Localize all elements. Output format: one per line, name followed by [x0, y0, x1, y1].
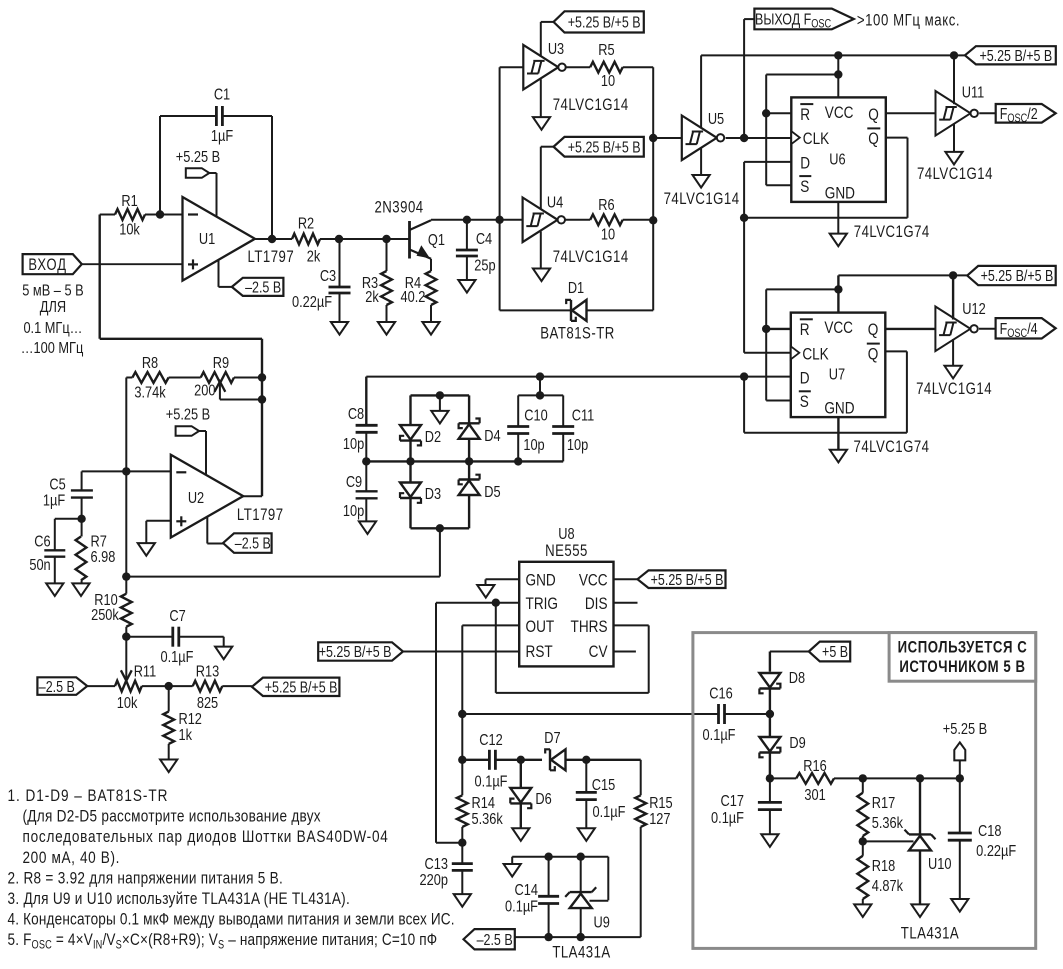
header box: [889, 633, 1036, 682]
diode D1: [540, 280, 653, 343]
ground U4: [533, 232, 550, 282]
capacitor C13: [420, 843, 473, 894]
svg-text:2k: 2k: [307, 248, 321, 266]
ground U10: [911, 904, 928, 917]
svg-text:Q: Q: [868, 130, 879, 149]
svg-text:R8: R8: [142, 355, 158, 373]
svg-text:200: 200: [194, 382, 215, 400]
wire C12 row: [462, 714, 640, 760]
ground R7: [72, 583, 89, 596]
svg-text:VCC: VCC: [824, 319, 853, 338]
resistor R17: [857, 778, 903, 841]
svg-text:+5.25 В/+5 В: +5.25 В/+5 В: [319, 643, 392, 661]
wire U1 output: [255, 238, 292, 240]
svg-text:C1: C1: [214, 86, 230, 104]
resistor R14: [457, 760, 504, 843]
diode D6: [510, 760, 551, 828]
ground U9 rail: [504, 864, 521, 877]
resistor R12: [163, 686, 202, 759]
wire U2 output: [243, 495, 262, 497]
svg-text:C11: C11: [572, 407, 595, 425]
svg-text:S: S: [800, 393, 809, 412]
svg-text:+5.25 В/+5 В: +5.25 В/+5 В: [265, 678, 338, 696]
svg-text:–2.5 В: –2.5 В: [245, 278, 281, 296]
wire Q1 collector to U3/U4 column: [431, 219, 500, 221]
node U6 D tie: [740, 214, 748, 222]
svg-text:(Для D2-D5 рассмотрите использ: (Для D2-D5 рассмотрите использование дву…: [22, 807, 320, 826]
svg-text:C4: C4: [476, 231, 492, 249]
svg-text:0.1µF: 0.1µF: [505, 898, 538, 916]
op-amp U1: [183, 197, 295, 281]
junction U6 ties: [762, 70, 843, 117]
resistor R15: [635, 760, 672, 937]
nodes U9 rail: [544, 853, 585, 861]
svg-text:C9: C9: [346, 474, 362, 492]
svg-text:10p: 10p: [567, 437, 588, 455]
wire bridge top rail: [366, 377, 469, 426]
wire OUT node to C16: [462, 713, 770, 715]
node U12 supply: [949, 271, 957, 279]
ground C6: [46, 583, 63, 596]
svg-text:2N3904: 2N3904: [374, 198, 423, 217]
svg-text:74LVC1G74: 74LVC1G74: [854, 223, 930, 242]
diode D7: [544, 730, 565, 771]
wire U8 CV stub: [614, 651, 636, 653]
svg-text:4. Конденсаторы 0.1 мкФ между: 4. Конденсаторы 0.1 мкФ между выводами п…: [8, 910, 455, 929]
diode D3: [400, 461, 441, 528]
svg-text:>100 МГц макс.: >100 МГц макс.: [857, 11, 960, 30]
wire U8 GND: [486, 579, 520, 585]
node R11/R12/R13: [165, 682, 173, 690]
svg-text:R1: R1: [121, 193, 137, 211]
node C4: [463, 216, 471, 224]
svg-text:+5.25 В/+5 В: +5.25 В/+5 В: [979, 47, 1052, 65]
shunt reference U10 TLA431A: [901, 778, 959, 943]
wire integrator node to bridge: [126, 528, 440, 576]
ground R18: [854, 904, 871, 917]
svg-text:10k: 10k: [119, 221, 140, 239]
junction R9: [258, 373, 266, 403]
svg-text:74LVC1G14: 74LVC1G14: [553, 96, 629, 115]
power flag +5.25V/+5V (U7 row): [967, 266, 1055, 285]
svg-text:GND: GND: [825, 184, 855, 203]
svg-text:74LVC1G14: 74LVC1G14: [553, 248, 629, 267]
resistor R3: [362, 239, 392, 322]
svg-text:40.2: 40.2: [401, 289, 426, 307]
svg-text:U11: U11: [962, 84, 985, 102]
svg-text:1. D1-D9 – BAT81S-TR: 1. D1-D9 – BAT81S-TR: [8, 787, 169, 806]
svg-text:25p: 25p: [474, 257, 495, 275]
svg-text:ИСПОЛЬЗУЕТСЯ С: ИСПОЛЬЗУЕТСЯ С: [898, 638, 1028, 657]
wire U6 D/Qbar loop to U7 CLK: [744, 138, 907, 353]
ground bridge top: [431, 395, 448, 423]
ground C4: [458, 280, 475, 293]
svg-text:Q: Q: [868, 345, 879, 364]
capacitor C16: [703, 685, 736, 744]
svg-text:+5.25 В: +5.25 В: [166, 406, 210, 424]
svg-text:D5: D5: [484, 484, 500, 502]
flip-flop U6: [791, 97, 886, 201]
nodes -2.5 row: [544, 933, 585, 941]
svg-text:10: 10: [601, 226, 615, 244]
svg-text:LT1797: LT1797: [248, 248, 295, 267]
resistor R1: [100, 193, 183, 239]
svg-text:R5: R5: [598, 42, 614, 60]
power flag +5.25 V (U2): [166, 406, 210, 475]
svg-text:VCC: VCC: [825, 104, 854, 123]
svg-text:74LVC1G74: 74LVC1G74: [854, 438, 930, 457]
capacitor C5: [43, 471, 126, 518]
capacitor C14: [505, 882, 559, 937]
wire U5 input: [653, 137, 682, 139]
svg-text:D: D: [800, 369, 810, 388]
ground U8: [477, 585, 494, 598]
svg-text:D3: D3: [425, 486, 441, 504]
wire R1 node to U2 output: [100, 215, 262, 497]
IC U8 NE555 box: [519, 562, 613, 667]
svg-text:3.74k: 3.74k: [134, 384, 166, 402]
svg-text:10p: 10p: [343, 503, 364, 521]
wire U7 D input: [700, 376, 791, 378]
wire bridge mid row: [366, 460, 563, 462]
svg-text:74LVC1G14: 74LVC1G14: [916, 380, 992, 399]
svg-text:3. Для U9 и U10 используйте TL: 3. Для U9 и U10 используйте TLA431A (НЕ …: [8, 890, 351, 909]
power flag +5.25 V (U1): [176, 149, 220, 218]
wire U6 GND: [837, 202, 839, 234]
power flag +5.25V/+5V (R13): [252, 678, 340, 696]
ground U5: [693, 148, 710, 188]
wire U8 THRS loop: [496, 603, 649, 693]
wire bridge bottom rail: [411, 527, 470, 529]
capacitor C8: [343, 406, 378, 462]
node C16/D8/D9: [766, 710, 774, 718]
ground U6: [830, 234, 847, 247]
diode D8: [759, 652, 805, 715]
svg-text:ВХОД: ВХОД: [28, 257, 67, 275]
svg-text:1µF: 1µF: [211, 128, 233, 146]
capacitor C9: [343, 461, 378, 521]
diode D5: [459, 461, 501, 528]
capacitor C4: [456, 220, 496, 280]
svg-text:R18: R18: [872, 858, 895, 876]
ground C9: [359, 521, 376, 534]
wire R16 rail: [770, 777, 960, 779]
resistor R10: [91, 577, 132, 637]
inverter U11: [936, 84, 985, 135]
capacitor C10: [507, 395, 548, 461]
wire U7 D/Qbar loop: [744, 351, 907, 432]
svg-text:127: 127: [649, 811, 670, 829]
svg-text:C3: C3: [320, 268, 336, 286]
ground U12: [945, 339, 962, 378]
capacitor C7: [126, 608, 223, 667]
svg-text:Q1: Q1: [428, 232, 445, 250]
svg-text:–2.5 В: –2.5 В: [477, 931, 513, 949]
resistor R5: [566, 42, 653, 91]
svg-text:C12: C12: [479, 732, 502, 750]
svg-text:D8: D8: [789, 670, 805, 688]
power flag +5.25V/+5V (U8 VCC): [638, 570, 726, 588]
svg-text:1µF: 1µF: [43, 492, 65, 510]
inverter U4: [523, 194, 565, 242]
svg-text:0.1µF: 0.1µF: [475, 773, 508, 791]
output flag VYHOD Fosc: [744, 9, 854, 138]
junction R2/C3 and R3: [335, 235, 391, 243]
input flag VHOD: [23, 254, 183, 274]
resistor R8: [126, 355, 200, 402]
svg-text:74LVC1G14: 74LVC1G14: [917, 165, 993, 184]
power flag -2.5 V (U1): [219, 260, 284, 296]
wire U8 TRIG: [436, 603, 519, 843]
ground U11: [945, 124, 962, 165]
svg-text:U1: U1: [199, 231, 215, 249]
ground R3: [378, 322, 395, 335]
svg-text:U4: U4: [547, 194, 563, 212]
wire R2 to Q1 base: [339, 238, 410, 240]
svg-text:250k: 250k: [91, 607, 119, 625]
svg-text:R17: R17: [872, 795, 895, 813]
resistor R16: [796, 758, 834, 805]
svg-text:U6: U6: [829, 151, 845, 169]
node U5 output: [740, 134, 748, 142]
svg-text:VCC: VCC: [579, 571, 608, 590]
svg-text:U12: U12: [962, 301, 985, 319]
svg-text:S: S: [800, 177, 809, 196]
node U4 input: [495, 216, 503, 224]
notes text: [8, 787, 455, 952]
node R17/R18: [859, 837, 867, 845]
svg-text:0.22µF: 0.22µF: [292, 294, 332, 312]
svg-text:D: D: [800, 154, 810, 173]
output flag Fosc/2: [979, 104, 1055, 125]
potentiometer R11: [87, 637, 169, 713]
ground C13: [454, 894, 471, 907]
ground C15: [578, 828, 595, 841]
wire U7 Q to U12: [885, 328, 935, 330]
output flag Fosc/4: [979, 318, 1056, 340]
node R1/C1: [156, 210, 164, 218]
svg-text:GND: GND: [526, 571, 556, 590]
potentiometer R9: [194, 355, 262, 400]
svg-text:D6: D6: [535, 791, 551, 809]
diode D9: [759, 714, 805, 778]
wire U5 output to U6 CLK: [726, 137, 792, 139]
wire U10 ref: [863, 840, 914, 842]
power flag -2.5 V (R11): [37, 677, 87, 695]
svg-text:4.87k: 4.87k: [872, 878, 904, 896]
power flag +5.25V/+5V (U4): [541, 137, 644, 210]
svg-text:TLA431A: TLA431A: [901, 924, 959, 943]
svg-text:+5 В: +5 В: [822, 643, 848, 661]
svg-text:U7: U7: [829, 366, 845, 384]
svg-text:OUT: OUT: [526, 617, 555, 636]
svg-text:6.98: 6.98: [90, 549, 115, 567]
node U1 out: [268, 235, 276, 243]
capacitor C11: [552, 395, 594, 461]
shunt reference U9 TLA431A: [552, 887, 610, 962]
svg-text:0.1µF: 0.1µF: [711, 810, 744, 828]
node bridge top: [436, 372, 545, 399]
svg-text:BAT81S-TR: BAT81S-TR: [540, 324, 614, 343]
svg-text:THRS: THRS: [571, 617, 608, 636]
svg-text:CLK: CLK: [803, 130, 830, 149]
junction U7 ties: [762, 285, 843, 333]
svg-text:74LVC1G14: 74LVC1G14: [664, 190, 740, 209]
node TRIG/THRS: [492, 599, 500, 607]
ground C7: [215, 647, 232, 660]
svg-text:U5: U5: [708, 111, 724, 129]
wire U11 supply: [953, 55, 955, 104]
diode D2: [400, 409, 441, 461]
capacitor C12: [475, 732, 508, 791]
svg-text:+5.25 В: +5.25 В: [943, 721, 987, 739]
wire +5.25 rail (U7 row): [838, 274, 967, 276]
wire U12 supply: [952, 275, 954, 319]
svg-text:LT1797: LT1797: [237, 506, 284, 525]
capacitor C3: [292, 239, 351, 322]
resistor R7: [76, 519, 116, 584]
svg-text:C6: C6: [34, 533, 50, 551]
svg-text:+5.25 В: +5.25 В: [176, 149, 220, 167]
ground C18: [951, 899, 968, 912]
svg-text:R13: R13: [196, 663, 219, 681]
svg-text:0.1 МГц…: 0.1 МГц…: [23, 320, 82, 338]
svg-text:R2: R2: [298, 215, 314, 233]
wire U6 Q to U11: [886, 112, 936, 114]
wire vertical U3/U4/D1 left column: [500, 67, 571, 310]
svg-text:50n: 50n: [29, 557, 50, 575]
svg-text:0.1µF: 0.1µF: [160, 649, 193, 667]
svg-text:C8: C8: [348, 406, 364, 424]
wire +5.25 rail (U6 row): [701, 54, 965, 56]
diode D4: [459, 404, 501, 461]
svg-text:D9: D9: [789, 735, 805, 753]
svg-text:+5.25 В/+5 В: +5.25 В/+5 В: [568, 138, 641, 156]
svg-text:220p: 220p: [420, 872, 448, 890]
inverter U5: [682, 111, 724, 160]
nodes R16 rail: [766, 774, 964, 782]
wire U8 RST: [403, 651, 519, 653]
nodes bridge mid: [362, 457, 522, 465]
junction right column: [649, 134, 657, 225]
svg-text:2. R8 = 3.92 для напряжении пи: 2. R8 = 3.92 для напряжении питания 5 В.: [8, 869, 284, 888]
svg-text:D1: D1: [568, 280, 584, 298]
svg-text:NE555: NE555: [545, 542, 588, 561]
svg-text:R: R: [800, 105, 810, 124]
wire feedback C1 loop: [160, 116, 272, 239]
svg-text:U10: U10: [928, 856, 951, 874]
capacitor C15: [576, 760, 626, 828]
svg-text:10k: 10k: [117, 695, 138, 713]
svg-text:последовательных пар диодов Шо: последовательных пар диодов Шоттки BAS40…: [22, 828, 388, 847]
node OUT/C16: [458, 710, 466, 718]
ground U3: [533, 79, 550, 130]
svg-text:U3: U3: [548, 41, 564, 59]
svg-text:301: 301: [804, 787, 825, 805]
svg-text:C15: C15: [592, 777, 615, 795]
svg-text:+5.25 В/+5 В: +5.25 В/+5 В: [651, 571, 724, 589]
resistor R2: [292, 215, 339, 266]
wire U7 GND: [837, 417, 839, 450]
svg-text:…100 МГц: …100 МГц: [21, 340, 84, 358]
svg-text:C16: C16: [709, 685, 732, 703]
capacitor C18: [948, 778, 1017, 899]
capacitor C6: [29, 519, 81, 584]
power flag -2.5 V (U2): [207, 517, 271, 553]
ground U2 +: [138, 543, 155, 556]
ground R12: [160, 760, 177, 773]
node bridge bottom: [436, 524, 444, 532]
svg-text:GND: GND: [824, 399, 854, 418]
svg-text:CLK: CLK: [802, 345, 829, 364]
svg-text:C18: C18: [978, 823, 1001, 841]
svg-text:U2: U2: [188, 490, 204, 508]
svg-text:10: 10: [601, 73, 615, 91]
svg-text:TLA431A: TLA431A: [552, 943, 610, 962]
resistor R4: [401, 259, 437, 322]
svg-text:+5.25 В/+5 В: +5.25 В/+5 В: [981, 267, 1054, 285]
svg-text:TRIG: TRIG: [526, 595, 558, 614]
svg-text:C7: C7: [169, 608, 185, 626]
power flag +5 V: [770, 642, 850, 662]
svg-text:Q: Q: [868, 321, 879, 340]
svg-text:RST: RST: [526, 642, 554, 661]
svg-text:R9: R9: [213, 355, 229, 373]
capacitor C1: [211, 86, 233, 145]
node R10/C7: [122, 633, 130, 641]
op-amp U2: [171, 455, 284, 538]
svg-text:+5.25 В/+5 В: +5.25 В/+5 В: [568, 13, 641, 31]
wire U8 DIS stub: [614, 602, 638, 604]
node U7 D tie: [740, 372, 748, 380]
svg-text:5.36k: 5.36k: [472, 811, 504, 829]
flip-flop U7: [791, 313, 886, 418]
wire U6 R/S tie: [766, 75, 838, 186]
resistor R13: [169, 663, 252, 712]
resistor R18: [857, 841, 903, 904]
nodes C12 row: [458, 756, 590, 764]
node R14/C13: [458, 839, 466, 847]
wire U2 inverting column: [126, 378, 171, 577]
ground C3: [331, 322, 348, 335]
capacitor C17: [711, 778, 782, 834]
inverter U3: [523, 41, 565, 90]
power flag +5.25V/+5V (U3): [541, 11, 644, 57]
wire right column R5/R6/D1: [652, 67, 654, 310]
power flag -2.5 V (U9): [464, 929, 515, 949]
wire U9 top rail: [512, 857, 608, 901]
svg-text:C10: C10: [524, 407, 547, 425]
ground C17: [761, 834, 778, 847]
svg-text:5.36k: 5.36k: [872, 815, 904, 833]
box uses-with-5V-source: [693, 633, 1036, 949]
svg-text:0.22µF: 0.22µF: [976, 843, 1016, 861]
svg-text:0.1µF: 0.1µF: [703, 727, 736, 745]
svg-text:ДЛЯ: ДЛЯ: [40, 299, 66, 317]
wire -2.5V row U9: [515, 936, 641, 938]
svg-text:2k: 2k: [365, 289, 379, 307]
power arrow +5.25 V: [943, 721, 987, 779]
inverter U12: [935, 301, 985, 351]
svg-text:1k: 1k: [178, 727, 192, 745]
svg-text:R16: R16: [803, 758, 826, 776]
svg-text:D4: D4: [484, 428, 500, 446]
svg-text:C17: C17: [721, 793, 744, 811]
wire U8 VCC: [614, 578, 638, 580]
text input range: [21, 282, 84, 357]
power flag +5.25V/+5V (top right): [965, 46, 1056, 64]
node C5/C6/R7: [77, 515, 85, 523]
